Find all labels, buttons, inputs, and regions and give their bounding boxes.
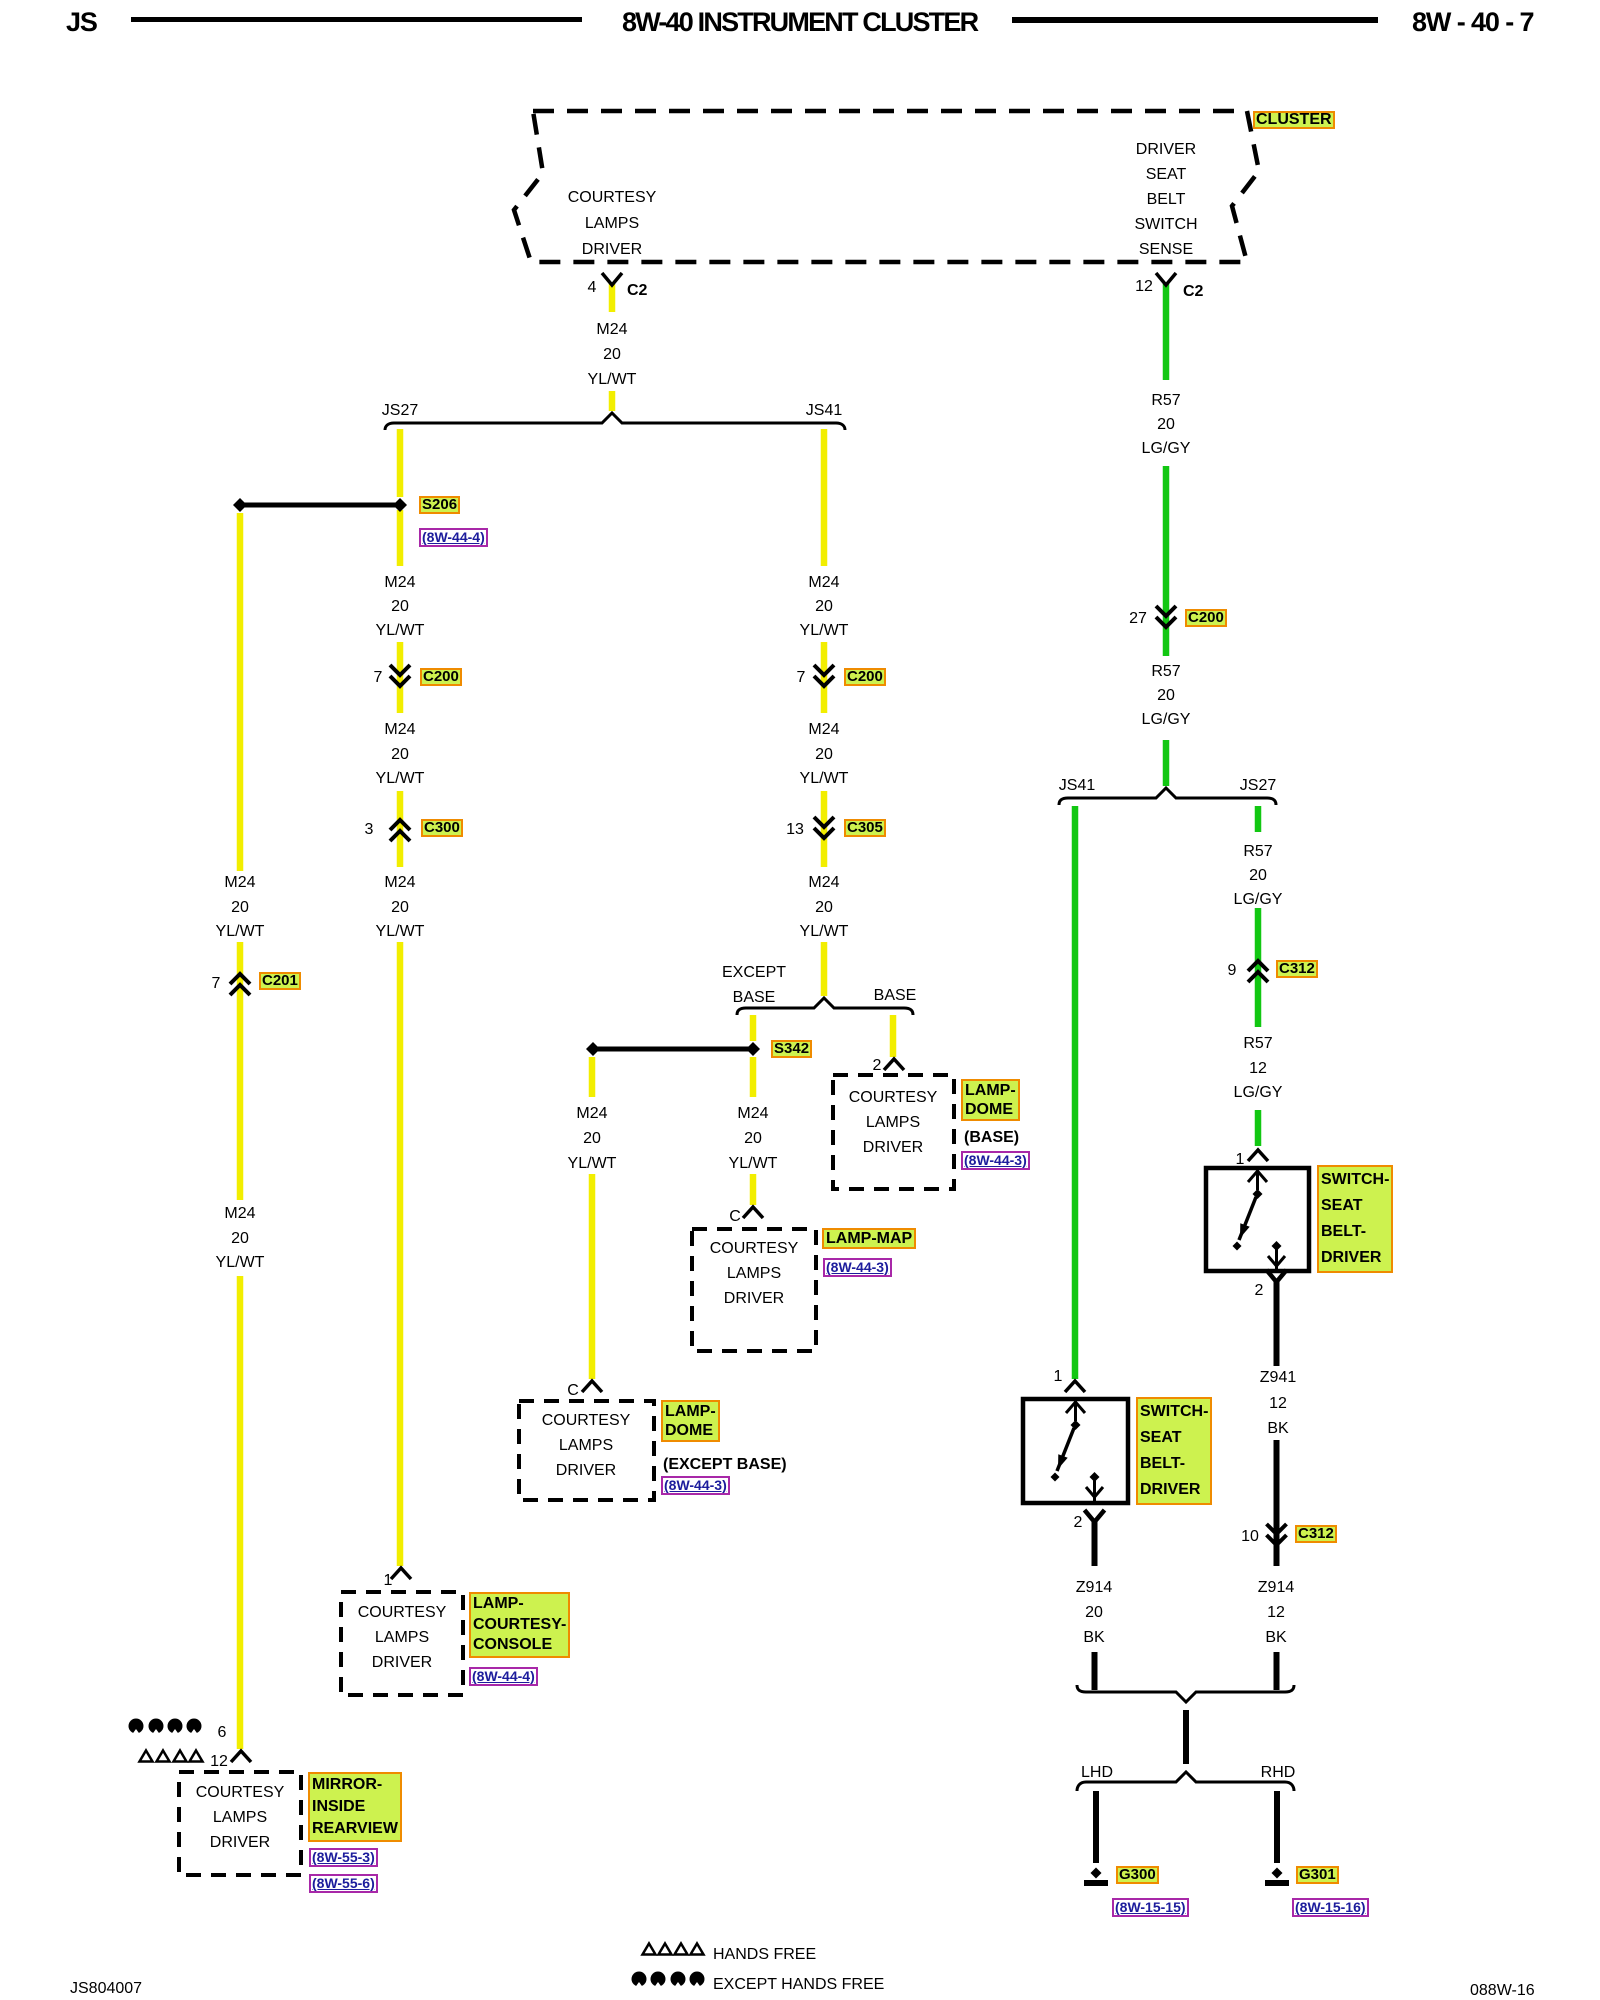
pin number 13 C305 xyxy=(786,822,804,838)
pin number 12 mirror xyxy=(210,1754,228,1770)
right switch blade arrowhead xyxy=(1240,1223,1250,1238)
connector label C305 xyxy=(844,819,886,837)
wire JS41 through C305 xyxy=(821,791,828,867)
label SWITCH-SEAT BELT-DRIVER left xyxy=(1136,1397,1212,1505)
connector C2 pin4 xyxy=(602,273,622,285)
wire R57 through C200 xyxy=(1163,466,1170,656)
connector label C300 xyxy=(421,819,463,837)
branch label JS41 xyxy=(806,403,842,419)
pin 2 dome lamp base xyxy=(884,1059,904,1070)
brace split JS27/JS41 xyxy=(385,413,845,430)
wire Z941 12 through C312 xyxy=(1274,1440,1280,1566)
wire Z914 12 to merge brace xyxy=(1274,1652,1280,1690)
wire JS41 branch upper xyxy=(821,429,828,566)
wire R57 from C2 pin12 xyxy=(1163,284,1170,380)
link 8W-55-6 xyxy=(309,1874,378,1893)
connector label C201 xyxy=(259,972,301,990)
pin C dome lamp xyxy=(567,1383,579,1399)
wire left of S342 down xyxy=(589,1057,596,1097)
pin C map lamp xyxy=(743,1207,763,1218)
wire JS41 green to switch pin1 xyxy=(1072,806,1079,1379)
left switch blade tip diamond xyxy=(1051,1473,1060,1482)
footer drawing code xyxy=(1470,1983,1535,1999)
wire to dome lamp pin C xyxy=(589,1174,596,1379)
wire label M24 mirror d xyxy=(216,1202,265,1276)
variant label BASE xyxy=(874,988,917,1004)
wire R57 above JS brace xyxy=(1163,740,1170,786)
wire JS27 long run to console lamp xyxy=(397,942,404,1566)
variant label RHD xyxy=(1261,1765,1296,1781)
wire label M24 JS41 c xyxy=(800,871,849,945)
pin number 2 dome base xyxy=(873,1058,882,1074)
branch label JS41 right xyxy=(1059,778,1095,794)
wire mirror branch upper xyxy=(237,513,244,871)
ground G300 symbol xyxy=(1091,1868,1102,1879)
map lamp name xyxy=(710,1236,799,1311)
wire common ground run xyxy=(1183,1710,1189,1764)
brace merge grounds xyxy=(1077,1685,1294,1702)
left switch blade xyxy=(1057,1428,1074,1471)
splice label S342 xyxy=(771,1040,812,1058)
pin number 10 C312 xyxy=(1241,1529,1259,1545)
wire label M24 map xyxy=(729,1101,778,1176)
junction diamond left of S342 xyxy=(586,1042,600,1056)
connector C200 JS27 xyxy=(390,665,410,686)
junction diamond left of S206 xyxy=(233,498,247,512)
connector C305 xyxy=(814,817,834,838)
connector C300 xyxy=(390,820,410,841)
wire label M24 JS27 a xyxy=(376,571,425,643)
legend text except hands free xyxy=(713,1977,884,1993)
ground label G301 xyxy=(1296,1866,1339,1884)
label LAMP-MAP xyxy=(822,1228,916,1249)
connector C201 xyxy=(230,974,250,995)
wire label M24 JS27 c xyxy=(376,871,425,945)
variant label EXCEPT BASE xyxy=(722,960,786,1010)
junction diamond S342 xyxy=(746,1042,760,1056)
connector name C2 right xyxy=(1183,284,1203,300)
link 8W-44-3 dome base xyxy=(961,1151,1030,1170)
right switch fixed contact diamond xyxy=(1272,1241,1282,1251)
wire base branch to dome lamp pin2 xyxy=(890,1015,897,1057)
pin number 2 right switch xyxy=(1255,1283,1264,1299)
pin 1 left switch xyxy=(1065,1381,1085,1392)
left switch box xyxy=(1023,1399,1128,1503)
lamp-map dashed box xyxy=(692,1229,816,1351)
wire label R57 js27 xyxy=(1234,840,1283,912)
pin number 1 right switch xyxy=(1236,1152,1245,1168)
ground G301 symbol xyxy=(1272,1868,1283,1879)
pin number 7 mid C200 xyxy=(797,670,806,686)
legend hands-free icons bottom xyxy=(643,1944,704,1955)
pin 1 console lamp xyxy=(391,1568,411,1579)
pin number 12 xyxy=(1135,279,1153,295)
wire M24 YL/WT from C2 pin4 xyxy=(609,284,616,312)
header rule right xyxy=(1012,17,1378,23)
lamp-dome base dashed box xyxy=(833,1075,954,1189)
dome lamp name xyxy=(542,1408,631,1483)
left switch top contact arrow xyxy=(1066,1399,1085,1421)
ground label G300 xyxy=(1116,1866,1159,1884)
wire label R57 mid xyxy=(1142,660,1191,732)
pin number 3 C300 xyxy=(365,822,374,838)
pin C map lamp xyxy=(729,1209,741,1225)
cluster label xyxy=(1253,111,1335,129)
wire to map lamp pin C xyxy=(750,1174,757,1205)
connector label C312 bottom xyxy=(1295,1525,1337,1543)
right switch box xyxy=(1206,1168,1309,1271)
link 8W-55-3 xyxy=(309,1848,378,1867)
pin 2 left switch xyxy=(1085,1510,1105,1522)
ground link 8W-15-15 xyxy=(1112,1898,1189,1917)
link 8W-44-4 console xyxy=(469,1667,538,1686)
wire below S342 xyxy=(750,1057,757,1097)
pin 1 right switch xyxy=(1248,1150,1268,1161)
label SWITCH-SEAT BELT-DRIVER right xyxy=(1317,1165,1393,1273)
wire Z941 12 below right switch xyxy=(1274,1282,1280,1366)
link 8W-44-3 dome xyxy=(661,1476,730,1495)
left switch fixed contact diamond xyxy=(1090,1472,1100,1482)
left switch blade arrowhead xyxy=(1058,1454,1068,1469)
wire JS27 branch to S206 xyxy=(397,429,404,497)
wire label R57 12 xyxy=(1234,1032,1283,1106)
wire label Z914 20 xyxy=(1076,1575,1112,1650)
pin number 1 left switch xyxy=(1054,1369,1063,1385)
page code left xyxy=(66,9,97,36)
legend hands-free icons upper xyxy=(140,1751,203,1762)
wire LHD ground leg xyxy=(1093,1791,1099,1863)
wire label M24 JS41 b xyxy=(800,718,849,792)
wire label R57 top xyxy=(1142,389,1191,461)
label MIRROR-INSIDE REARVIEW xyxy=(308,1772,402,1842)
wire R57 through C312 xyxy=(1255,908,1262,1027)
footer sheet code xyxy=(70,1981,142,1997)
splice label S206 xyxy=(419,496,460,514)
splice link 8W-44-4 xyxy=(419,528,488,547)
wire JS41 above base brace xyxy=(821,942,828,996)
junction diamond S206 xyxy=(393,498,407,512)
branch label JS27 right xyxy=(1240,778,1276,794)
pin number 27 C200 xyxy=(1129,611,1147,627)
mirror-inside-rearview dashed box xyxy=(179,1772,301,1875)
wire JS27 below S206 xyxy=(397,510,404,566)
lamp-courtesy-console dashed box xyxy=(341,1592,463,1695)
link 8W-44-3 map xyxy=(823,1258,892,1277)
wire R57 12 to switch pin1 xyxy=(1255,1110,1262,1146)
connector C312 pin9 xyxy=(1248,961,1268,982)
connector C312 pin10 xyxy=(1267,1524,1287,1545)
wire mirror branch lower xyxy=(237,1276,244,1749)
pin number 1 console xyxy=(384,1573,393,1589)
cluster right pin name xyxy=(1134,137,1197,262)
wire label M24 JS41 a xyxy=(800,571,849,643)
left switch bottom contact arrow xyxy=(1086,1479,1103,1503)
instrument cluster dashed outline xyxy=(514,111,1259,262)
connector label C200 right xyxy=(1185,609,1227,627)
pin number 2 left switch xyxy=(1074,1515,1083,1531)
variant label LHD xyxy=(1081,1765,1113,1781)
label LAMP-DOME except base xyxy=(661,1400,720,1442)
wire JS41 through C200 xyxy=(821,642,828,713)
wire label M24 top xyxy=(588,317,637,392)
pin C dome lamp xyxy=(582,1381,602,1392)
dome base lamp name xyxy=(849,1085,938,1160)
node S342 tie line xyxy=(593,1047,753,1052)
left switch pivot diamond xyxy=(1071,1420,1081,1430)
variant BASE bold xyxy=(964,1130,1019,1146)
ground link 8W-15-16 xyxy=(1292,1898,1369,1917)
pin 12 mirror xyxy=(231,1751,251,1762)
wire label Z941 xyxy=(1260,1365,1296,1442)
lamp-dome except-base dashed box xyxy=(519,1401,654,1500)
mirror lamp name xyxy=(196,1780,285,1855)
page number xyxy=(1412,9,1533,36)
wire M24 above JS27/JS41 brace xyxy=(609,391,616,411)
legend except-hands-free icons upper xyxy=(129,1719,202,1735)
branch label JS27 xyxy=(382,403,418,419)
node S206 tie line xyxy=(240,503,400,508)
connector C2 pin12 xyxy=(1156,273,1176,285)
right switch pivot diamond xyxy=(1253,1189,1263,1199)
wire except-base to S342 xyxy=(750,1015,757,1041)
pin number 7 C201 xyxy=(212,976,221,992)
connector C200 cluster side xyxy=(1156,606,1176,627)
brace split JS41/JS27 right xyxy=(1059,788,1276,805)
legend text hands free xyxy=(713,1947,816,1963)
wire RHD ground leg xyxy=(1274,1791,1280,1863)
right switch blade tip diamond xyxy=(1233,1242,1242,1251)
legend except-hands-free icons bottom xyxy=(632,1972,705,1988)
connector label C200 mid xyxy=(844,668,886,686)
right switch blade xyxy=(1239,1197,1256,1240)
wire JS27 through C300 xyxy=(397,791,404,867)
wire JS27 through C200 xyxy=(397,642,404,713)
wire label M24 JS27 b xyxy=(376,718,425,792)
pin number 4 xyxy=(588,280,597,296)
right switch bottom contact arrow xyxy=(1268,1248,1285,1271)
header rule left xyxy=(131,17,582,22)
wire mirror branch mid xyxy=(237,942,244,1200)
brace split EXCEPT BASE / BASE xyxy=(737,998,913,1015)
wire Z914 20 below left switch xyxy=(1092,1522,1098,1566)
legend count 6 xyxy=(218,1725,227,1741)
label LAMP-COURTESY-CONSOLE xyxy=(469,1592,570,1658)
cluster left pin name xyxy=(568,185,657,263)
right switch top contact arrow xyxy=(1248,1168,1267,1190)
pin number 7 left C200 xyxy=(374,670,383,686)
wire JS27 green upper xyxy=(1255,806,1262,832)
wire label Z914 12 xyxy=(1258,1575,1294,1650)
wire Z914 20 to merge brace xyxy=(1092,1652,1098,1690)
connector label C200 left xyxy=(420,668,462,686)
wire label M24 mirror c xyxy=(216,871,265,945)
pin number 9 C312 xyxy=(1228,963,1237,979)
connector C200 JS41 xyxy=(814,665,834,686)
page title xyxy=(622,9,977,36)
brace split LHD/RHD xyxy=(1077,1772,1294,1791)
label LAMP-DOME base xyxy=(961,1079,1020,1121)
pin 2 right switch xyxy=(1267,1270,1287,1282)
connector name C2 left xyxy=(627,283,647,299)
connector label C312 top xyxy=(1276,960,1318,978)
variant EXCEPT BASE bold xyxy=(663,1457,787,1473)
wire label M24 dome xyxy=(568,1101,617,1176)
console lamp name xyxy=(358,1600,447,1675)
